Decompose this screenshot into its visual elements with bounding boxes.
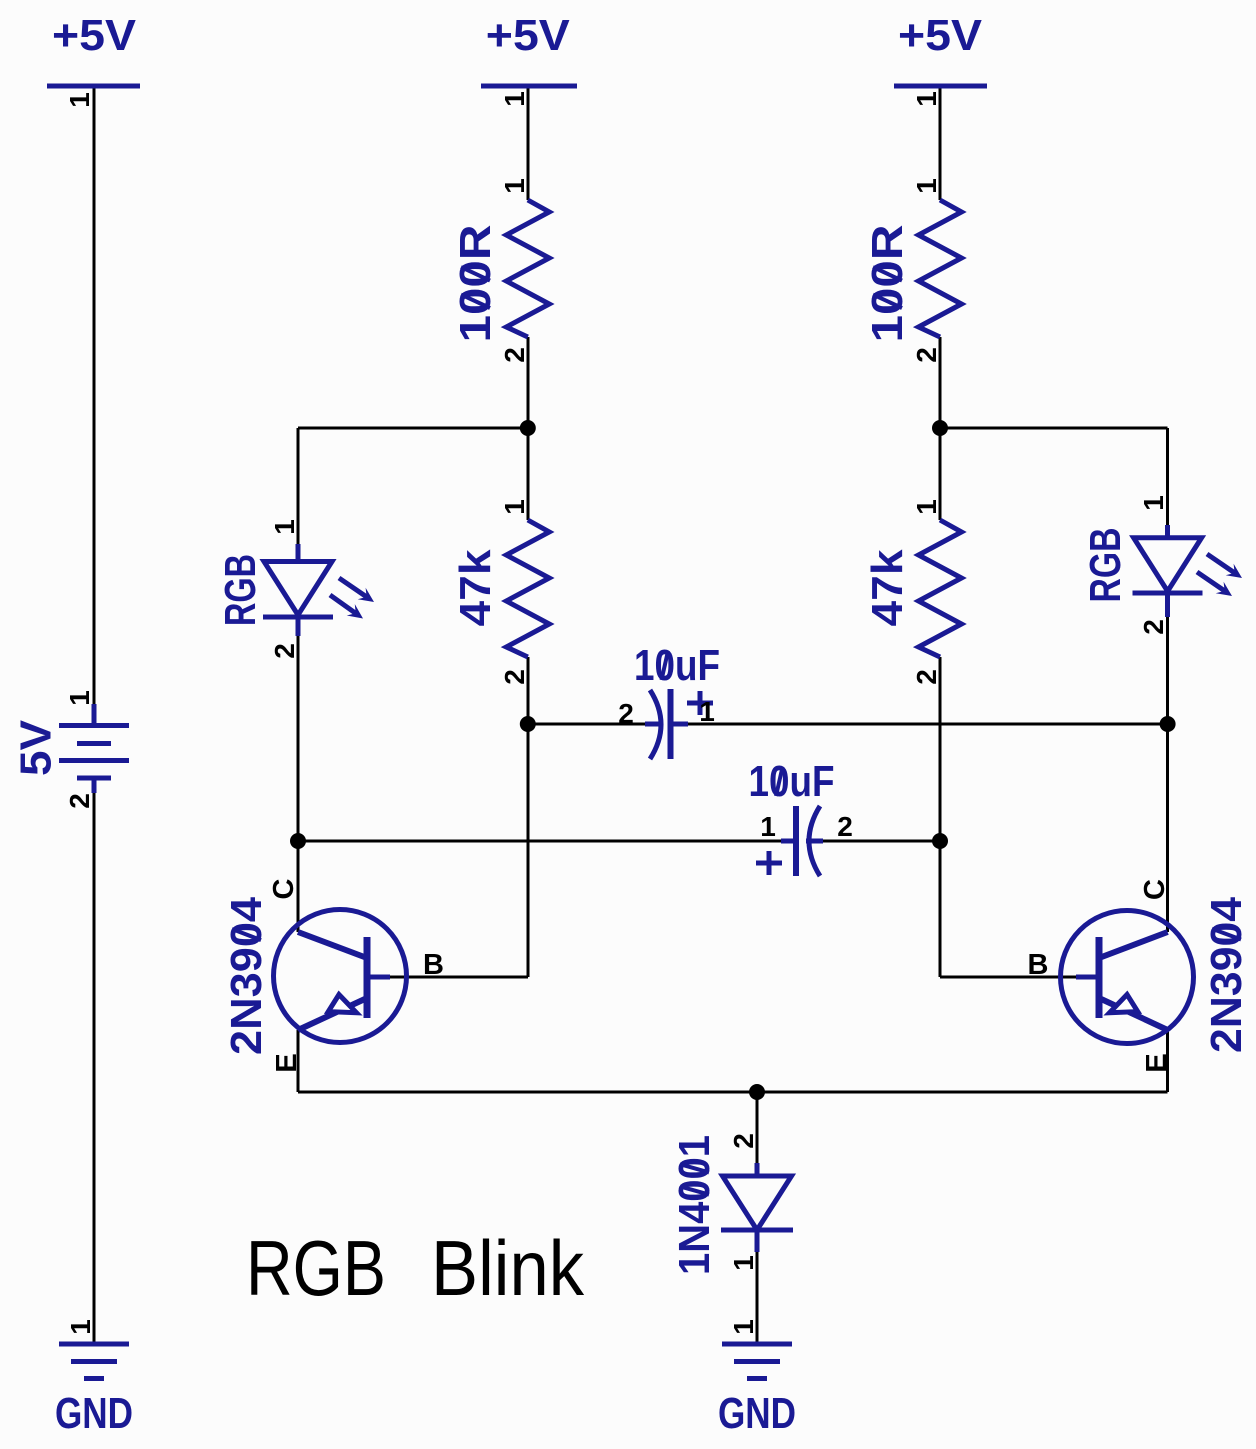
svg-text:5V: 5V [12, 719, 61, 776]
svg-text:1: 1 [499, 91, 530, 107]
svg-text:RGB: RGB [1081, 528, 1130, 603]
svg-text:1: 1 [699, 696, 715, 727]
svg-text:1: 1 [269, 519, 300, 535]
svg-text:1: 1 [911, 178, 942, 194]
svg-text:B: B [423, 949, 444, 981]
svg-text:10uF: 10uF [634, 641, 720, 690]
svg-text:1: 1 [64, 690, 95, 706]
svg-text:2: 2 [499, 669, 530, 685]
svg-text:2: 2 [499, 347, 530, 363]
svg-text:GND: GND [55, 1389, 133, 1438]
svg-text:2: 2 [911, 347, 942, 363]
svg-text:RGB: RGB [246, 1224, 386, 1312]
svg-text:1: 1 [64, 92, 95, 108]
svg-text:+5V: +5V [52, 11, 137, 60]
svg-text:100R: 100R [863, 225, 912, 343]
svg-text:2: 2 [618, 698, 634, 729]
svg-text:47k: 47k [451, 549, 500, 627]
svg-text:C: C [268, 878, 300, 899]
svg-text:1N4001: 1N4001 [670, 1135, 719, 1275]
svg-text:2: 2 [728, 1133, 759, 1149]
svg-text:10uF: 10uF [749, 757, 835, 806]
svg-text:1: 1 [499, 178, 530, 194]
svg-text:1: 1 [760, 811, 776, 842]
svg-text:2: 2 [837, 811, 853, 842]
svg-text:E: E [271, 1053, 303, 1072]
svg-text:1: 1 [499, 499, 530, 515]
svg-text:2: 2 [269, 643, 300, 659]
svg-text:1: 1 [728, 1255, 759, 1271]
svg-text:2: 2 [64, 793, 95, 809]
svg-text:1: 1 [728, 1319, 759, 1335]
svg-text:2: 2 [911, 669, 942, 685]
svg-text:+5V: +5V [486, 11, 571, 60]
svg-text:100R: 100R [451, 225, 500, 343]
svg-text:47k: 47k [863, 549, 912, 627]
svg-text:C: C [1139, 879, 1171, 900]
svg-text:+5V: +5V [898, 11, 983, 60]
svg-text:2N3904: 2N3904 [222, 896, 271, 1055]
svg-text:E: E [1141, 1053, 1173, 1072]
svg-text:1: 1 [911, 499, 942, 515]
svg-text:2N3904: 2N3904 [1202, 896, 1251, 1053]
svg-text:RGB: RGB [216, 554, 265, 626]
svg-text:B: B [1028, 949, 1049, 981]
svg-text:Blink: Blink [431, 1224, 585, 1312]
svg-text:1: 1 [1138, 495, 1169, 511]
svg-text:2: 2 [1138, 619, 1169, 635]
svg-text:GND: GND [718, 1389, 796, 1438]
svg-text:1: 1 [911, 91, 942, 107]
svg-text:1: 1 [65, 1319, 96, 1335]
